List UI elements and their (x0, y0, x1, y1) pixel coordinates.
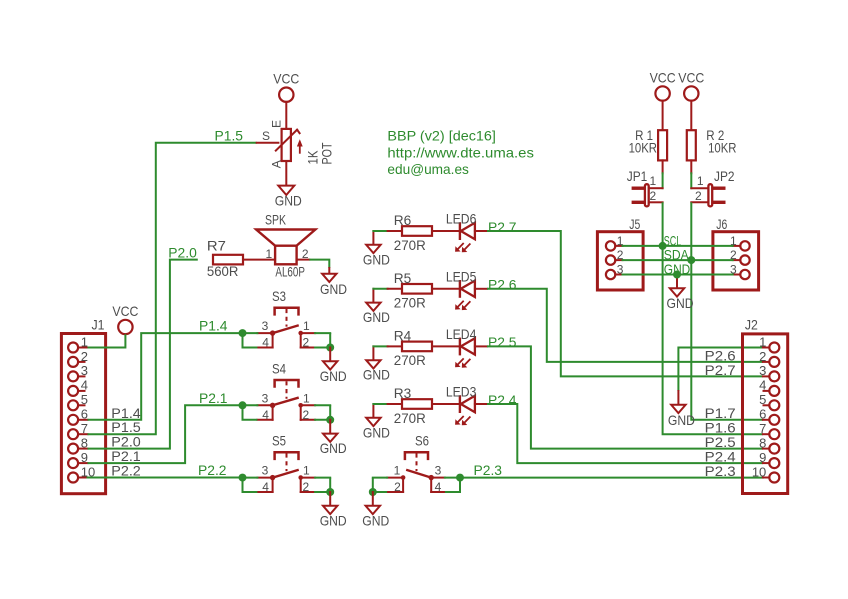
svg-text:S: S (262, 129, 270, 143)
wire VCC to R1 (662, 101, 664, 131)
svg-text:2: 2 (303, 336, 310, 350)
svg-text:GND: GND (667, 295, 694, 311)
svg-text:4: 4 (262, 408, 269, 422)
ground at R3 (363, 404, 390, 440)
J2 pin circles and stubs (763, 343, 779, 483)
connector J1 box (61, 317, 105, 494)
svg-text:GND: GND (668, 412, 695, 428)
switch S5 pins (257, 478, 315, 492)
svg-text:S3: S3 (272, 288, 286, 304)
switch S4 pins (257, 405, 315, 420)
svg-text:10KR: 10KR (708, 140, 736, 156)
ground at S5 (320, 492, 347, 528)
svg-text:S6: S6 (415, 433, 429, 449)
junction at S6 left (369, 488, 377, 496)
connector J5 box (597, 216, 643, 290)
label P2.6 at LED5 (488, 277, 517, 293)
label P2.7 at J2 (705, 362, 736, 378)
svg-text:JP1: JP1 (627, 168, 648, 184)
label P2.3 at S6 (474, 462, 503, 478)
svg-text:P2.6: P2.6 (705, 347, 736, 363)
svg-text:J5: J5 (629, 216, 640, 232)
svg-text:E: E (270, 120, 284, 128)
wire R5 to LED5 (432, 288, 460, 290)
switch S5 pin numbers (262, 464, 310, 494)
ground below potentiometer (275, 186, 302, 209)
ground at R4 (363, 346, 390, 382)
power VCC at R2 (678, 69, 704, 100)
svg-text:2: 2 (303, 408, 310, 422)
wire ground to R5 (373, 288, 402, 290)
svg-text:GND: GND (363, 367, 390, 383)
potentiometer 1K POT body (262, 120, 291, 168)
wire R1 to JP1 (662, 160, 664, 188)
svg-text:LED6: LED6 (446, 211, 477, 227)
switch S3 lever and contacts (270, 326, 303, 336)
wire net SCL J5 to J6 (623, 245, 733, 247)
svg-text:GND: GND (320, 281, 347, 297)
junction at S3 right (326, 344, 334, 352)
switch S3 pin numbers (262, 319, 310, 349)
svg-text:VCC: VCC (273, 71, 299, 87)
svg-text:R5: R5 (394, 270, 412, 286)
svg-text:P2.1: P2.1 (199, 390, 228, 406)
wire net P2.7 from LED6 to J2 pin3 (487, 231, 763, 376)
label SCL (664, 232, 682, 248)
svg-text:S5: S5 (272, 433, 286, 449)
svg-text:10KR: 10KR (629, 140, 657, 156)
wire net SCL column JP1 to J2 pin7 (663, 202, 763, 434)
label P2.4 at LED3 (488, 392, 517, 408)
wire S5 right pins to ground (315, 478, 330, 492)
svg-text:P1.5: P1.5 (215, 127, 244, 143)
resistor R4 270R (394, 327, 432, 368)
junction SCL (659, 242, 667, 250)
wire net SDA J5 to J6 (623, 259, 733, 261)
J6 pins (730, 234, 750, 279)
diode LED6 (446, 211, 477, 253)
svg-text:6: 6 (759, 407, 766, 422)
svg-text:LED4: LED4 (446, 326, 477, 342)
switch S3 actuator (275, 308, 299, 327)
ground at speaker (320, 268, 347, 297)
wire net P2.3 from S6 to J2 pin10 (460, 477, 763, 479)
svg-text:GND: GND (320, 512, 347, 528)
svg-text:3: 3 (262, 464, 269, 478)
svg-text:GND: GND (363, 424, 390, 440)
label P2.5 at J2 (705, 434, 736, 450)
svg-text:P1.4: P1.4 (199, 318, 228, 334)
wire R2 to JP2 (690, 160, 692, 188)
wire net SDA column JP2 to J2 pin6 (691, 202, 763, 419)
svg-text:1: 1 (650, 174, 657, 188)
svg-text:GND: GND (320, 368, 347, 384)
svg-text:P1.6: P1.6 (705, 420, 736, 436)
speaker SPK AL60P (256, 212, 315, 280)
svg-text:1: 1 (303, 464, 310, 478)
svg-text:2: 2 (303, 480, 310, 494)
title text BBP (387, 128, 534, 177)
svg-text:VCC: VCC (112, 303, 138, 319)
svg-text:P2.4: P2.4 (488, 392, 517, 408)
wire potentiometer to ground (285, 161, 287, 186)
svg-text:LED5: LED5 (446, 269, 477, 285)
svg-text:3: 3 (759, 363, 766, 378)
label S6 (415, 433, 429, 449)
svg-text:P2.0: P2.0 (168, 244, 197, 260)
jumper JP1 (627, 168, 663, 207)
label P2.6 at J2 (705, 347, 736, 363)
svg-text:1: 1 (759, 334, 766, 349)
power VCC at R1 (650, 69, 676, 100)
svg-text:3: 3 (262, 319, 269, 333)
wire net GND to J2 pin1 (678, 348, 763, 392)
switch S5 actuator (275, 452, 299, 471)
svg-text:8: 8 (81, 435, 88, 450)
svg-text:GND: GND (363, 251, 390, 267)
svg-text:LED3: LED3 (446, 384, 477, 400)
wire R6 to LED6 (432, 230, 460, 232)
power VCC at potentiometer (273, 71, 299, 102)
junction at S5 right (326, 488, 334, 496)
svg-text:9: 9 (759, 450, 766, 465)
label S5 (272, 433, 286, 449)
label P2.4 at J2 (705, 449, 736, 465)
J1 pin circles and stubs (68, 343, 87, 483)
junction at S4 right (326, 416, 334, 424)
label 1K POT value (305, 142, 335, 164)
svg-text:4: 4 (262, 336, 269, 350)
wire S3 right pins to ground (315, 333, 330, 347)
wire R7 to speaker (243, 259, 275, 261)
ground at R6 (363, 231, 390, 267)
svg-text:POT: POT (319, 142, 335, 164)
label P1.7 at J2 (705, 405, 736, 421)
svg-text:http://www.dte.uma.es: http://www.dte.uma.es (387, 144, 534, 160)
svg-text:P2.3: P2.3 (474, 462, 503, 478)
label P2.7 at LED6 (488, 219, 517, 235)
connector J2 box (743, 317, 788, 494)
label SDA (664, 247, 690, 263)
wire S4 right pins to ground (315, 405, 330, 420)
wire ground to R4 (373, 345, 402, 347)
svg-text:1: 1 (697, 174, 704, 188)
svg-text:J6: J6 (716, 216, 727, 232)
wire net P2.0 from J1 pin8 to R7 (88, 260, 198, 449)
switch S6 lever and contacts (401, 470, 434, 480)
svg-text:8: 8 (759, 435, 766, 450)
svg-text:R4: R4 (394, 327, 412, 343)
wire speaker pin2 to ground (297, 260, 330, 268)
J1 pin name labels (111, 405, 141, 479)
svg-text:SPK: SPK (265, 212, 286, 228)
J5 pins (606, 234, 624, 279)
junction at S5 left (239, 474, 247, 482)
svg-text:4: 4 (759, 378, 766, 393)
svg-text:R3: R3 (394, 385, 412, 401)
resistor R7 (207, 237, 243, 278)
svg-text:P2.7: P2.7 (488, 219, 517, 235)
wire R4 to LED4 (432, 345, 460, 347)
ground at S3 (320, 348, 347, 384)
label P1.4 net (199, 318, 228, 334)
svg-text:A: A (270, 160, 284, 168)
wire S3 left pins (243, 333, 258, 347)
switch S4 pin numbers (262, 391, 310, 422)
label P1.5 net (215, 127, 244, 143)
switch S4 lever and contacts (270, 398, 303, 408)
wire LED5 anode (475, 288, 487, 290)
svg-text:GND: GND (275, 193, 302, 209)
wire net P2.5 from LED4 to J2 pin8 (487, 346, 763, 448)
junction at S4 left (239, 401, 247, 409)
svg-text:1: 1 (303, 319, 310, 333)
wire LED4 anode (475, 345, 487, 347)
connector J6 box (713, 216, 759, 290)
svg-text:3: 3 (262, 391, 269, 405)
label P2.2 net (198, 462, 227, 478)
svg-text:GND: GND (363, 309, 390, 325)
wire LED6 anode (475, 230, 487, 232)
label P2.5 at LED4 (488, 334, 517, 350)
switch S5 lever and contacts (270, 470, 303, 480)
svg-text:P2.5: P2.5 (488, 334, 517, 350)
junction at S6 right (456, 474, 464, 482)
svg-text:JP2: JP2 (714, 168, 735, 184)
resistor R6 270R (394, 212, 432, 253)
resistor R5 270R (394, 270, 432, 311)
wire S4 left pins (243, 405, 258, 420)
wire ground to R6 (373, 230, 402, 232)
svg-text:9: 9 (81, 450, 88, 465)
svg-text:7: 7 (759, 421, 766, 436)
svg-text:edu@uma.es: edu@uma.es (387, 161, 469, 177)
svg-text:P2.3: P2.3 (705, 463, 736, 479)
svg-text:270R: 270R (394, 237, 426, 253)
resistor R3 270R (394, 385, 432, 426)
wire S5 left pins (243, 478, 258, 492)
switch S3 pins (257, 333, 315, 347)
potentiometer wiper arrow (257, 130, 303, 153)
label GND net (664, 261, 691, 277)
svg-text:GND: GND (664, 261, 691, 277)
svg-text:J1: J1 (92, 317, 105, 333)
diode LED5 (446, 269, 477, 311)
label P2.0 net (168, 244, 197, 260)
resistor R1 10KR (629, 127, 668, 161)
svg-text:4: 4 (81, 378, 88, 393)
svg-text:270R: 270R (394, 352, 426, 368)
svg-text:4: 4 (435, 480, 442, 494)
wire S6 right pins (445, 478, 460, 492)
svg-text:2: 2 (695, 189, 702, 203)
label S4 (272, 360, 286, 376)
svg-text:1: 1 (81, 334, 88, 349)
svg-text:P2.4: P2.4 (705, 449, 736, 465)
svg-text:10: 10 (752, 464, 766, 479)
switch S4 actuator (275, 380, 299, 399)
label P2.1 net (199, 390, 228, 406)
svg-text:P2.2: P2.2 (111, 463, 141, 479)
svg-text:5: 5 (759, 392, 766, 407)
power VCC at J1 pin1 (112, 303, 138, 334)
wire net P2.6 from LED5 to J2 pin2 (487, 289, 763, 362)
svg-text:1: 1 (394, 464, 401, 478)
junction at S3 left (239, 329, 247, 337)
svg-text:1: 1 (303, 391, 310, 405)
svg-text:3: 3 (435, 464, 442, 478)
wire net P1.4 from J1 pin6 to S3 (88, 333, 243, 420)
wire VCC to R2 (690, 101, 692, 131)
svg-text:S4: S4 (272, 360, 286, 376)
resistor R2 10KR (687, 127, 737, 161)
wire R3 to LED3 (432, 403, 460, 405)
svg-text:GND: GND (362, 512, 389, 528)
svg-text:3: 3 (81, 363, 88, 378)
diode LED3 (446, 384, 477, 426)
svg-text:5: 5 (81, 392, 88, 407)
J1 pin numbers (81, 334, 95, 479)
svg-text:4: 4 (262, 480, 269, 494)
svg-text:P2.2: P2.2 (198, 462, 227, 478)
svg-text:1: 1 (266, 247, 273, 261)
svg-text:6: 6 (81, 407, 88, 422)
wire net GND J5 to J6 (623, 274, 733, 276)
wire LED3 anode (475, 403, 487, 405)
J2 pin numbers (752, 334, 766, 479)
svg-text:270R: 270R (394, 410, 426, 426)
svg-text:560R: 560R (207, 263, 239, 279)
wire ground to R3 (373, 403, 402, 405)
svg-text:2: 2 (759, 349, 766, 364)
label P1.6 at J2 (705, 420, 736, 436)
diode LED4 (446, 326, 477, 368)
junction SDA (687, 256, 695, 264)
ground at R5 (363, 289, 390, 325)
junction GND net (673, 271, 681, 279)
ground at S6 (362, 492, 389, 528)
svg-text:2: 2 (81, 349, 88, 364)
svg-text:P2.7: P2.7 (705, 362, 736, 378)
svg-text:BBP (v2) [dec16]: BBP (v2) [dec16] (387, 128, 496, 144)
wire net P1.5 from J1 pin7 to potentiometer (88, 143, 257, 434)
wire J1 pin1 to VCC (88, 334, 126, 347)
svg-text:VCC: VCC (650, 69, 676, 85)
svg-text:7: 7 (81, 421, 88, 436)
switch S6 pin numbers (394, 464, 442, 494)
wire net P2.4 from LED3 to J2 pin9 (487, 404, 763, 463)
wire net P2.1 from J1 pin9 to S4 (88, 405, 243, 463)
wire VCC to potentiometer (285, 102, 287, 129)
label P2.3 at J2 (705, 463, 736, 479)
switch S6 actuator (405, 452, 428, 471)
jumper JP2 (691, 168, 734, 207)
svg-text:2: 2 (650, 189, 657, 203)
svg-text:2: 2 (394, 480, 401, 494)
switch S6 pins (387, 478, 445, 492)
svg-text:VCC: VCC (678, 69, 704, 85)
svg-text:P1.7: P1.7 (705, 405, 736, 421)
svg-text:270R: 270R (394, 295, 426, 311)
ground at J2 pin1 (668, 391, 695, 428)
ground at S4 (320, 420, 347, 456)
svg-text:J2: J2 (745, 317, 758, 333)
label S3 (272, 288, 286, 304)
svg-text:AL60P: AL60P (275, 263, 305, 279)
wire S6 left pins to ground (373, 478, 387, 492)
svg-text:GND: GND (320, 440, 347, 456)
svg-text:R6: R6 (394, 212, 412, 228)
wire net P2.2 from J1 pin10 to S5 (88, 477, 243, 479)
svg-text:R7: R7 (207, 237, 226, 253)
ground below J5 J6 (667, 275, 694, 311)
svg-text:P2.6: P2.6 (488, 277, 517, 293)
